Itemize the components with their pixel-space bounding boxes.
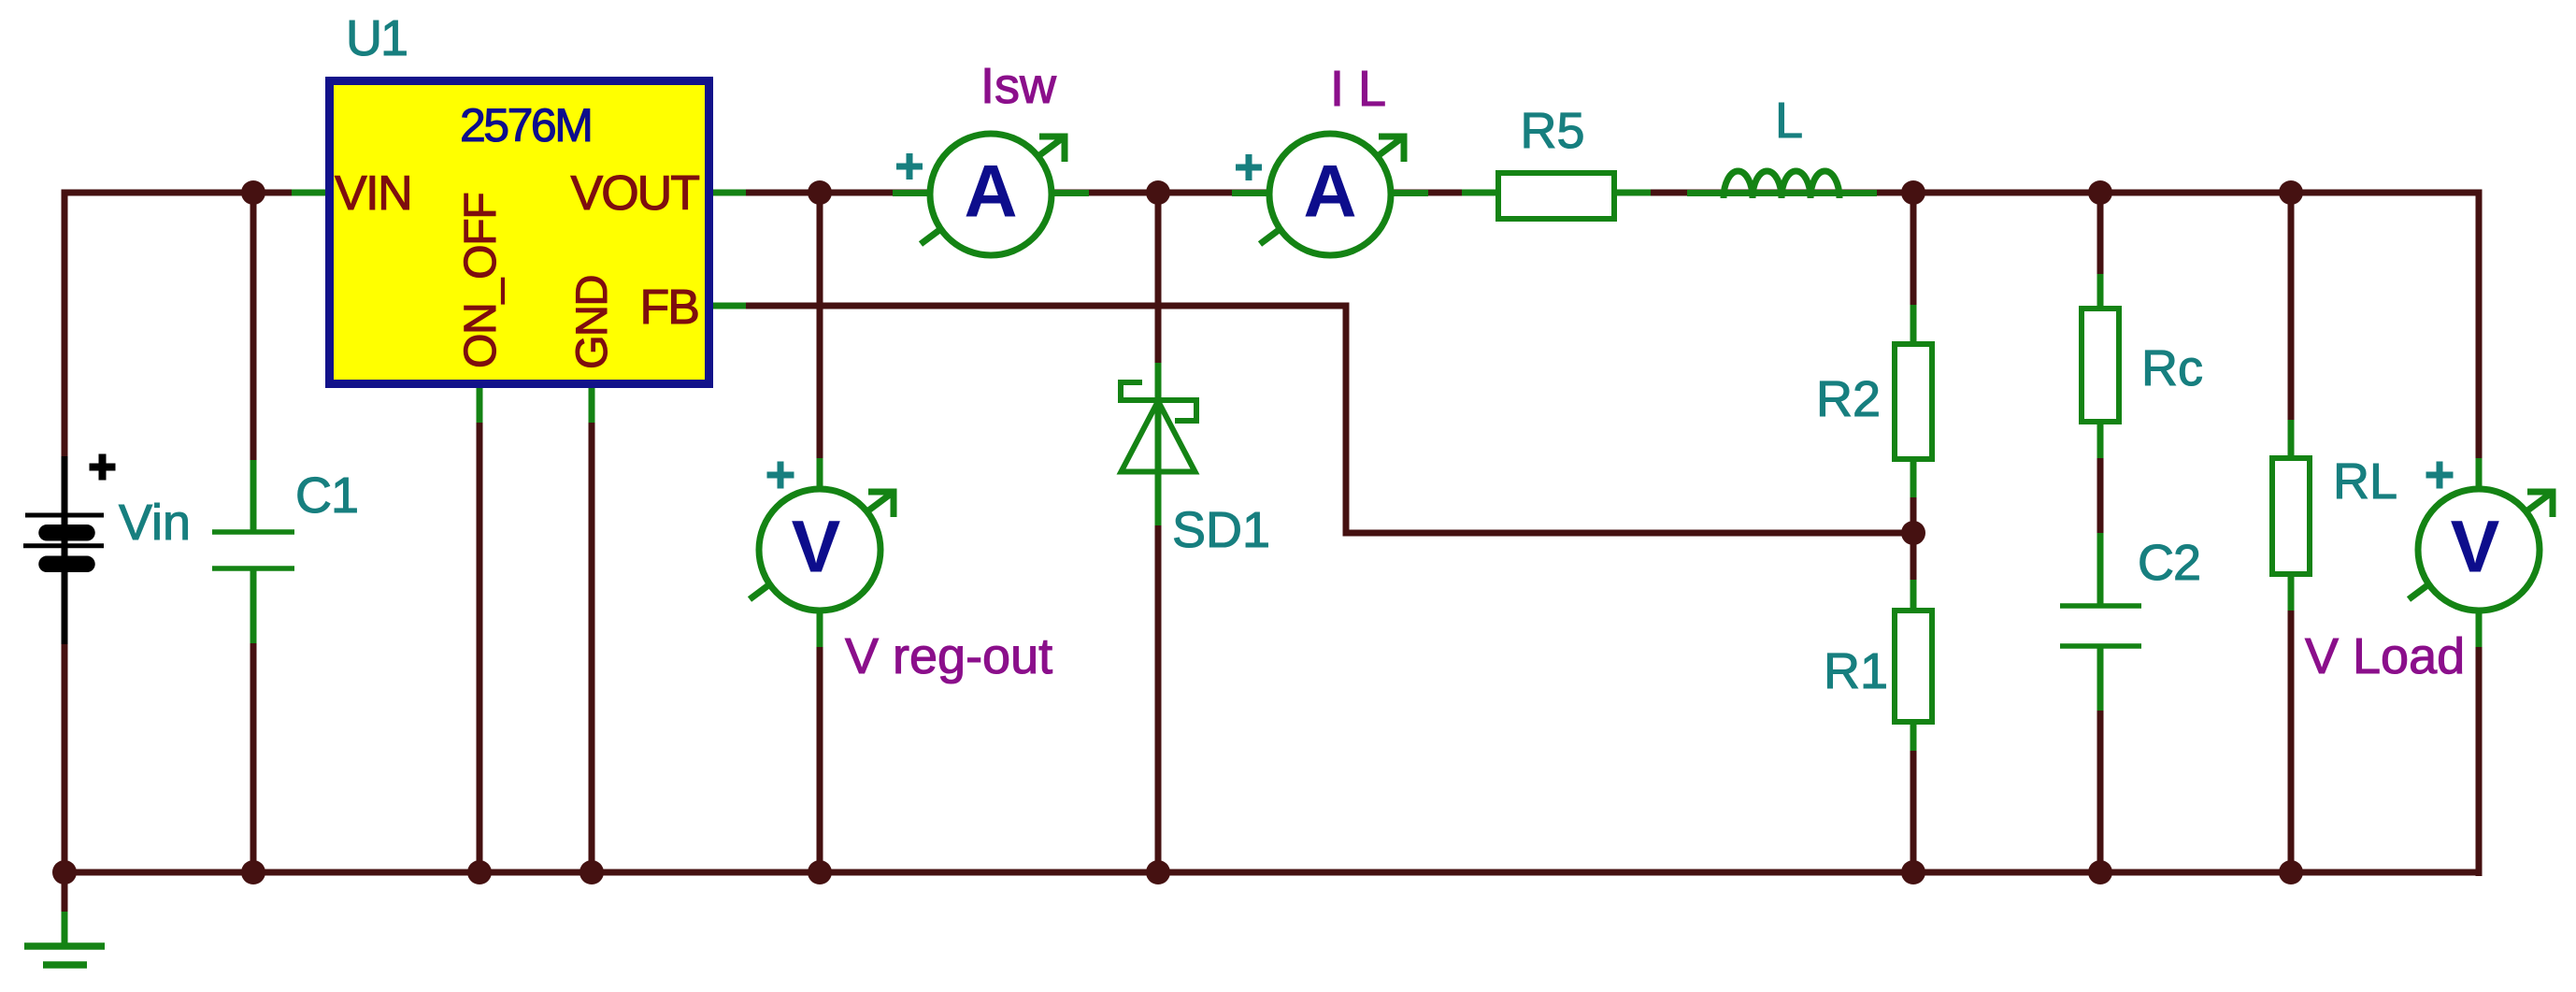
svg-text:R5: R5	[1520, 103, 1584, 159]
voltmeter V reg-out	[750, 458, 894, 647]
node ground junction (SD1)	[1146, 860, 1170, 884]
diode SD1 schottky	[1118, 363, 1199, 525]
node ground junction (GND pin)	[580, 860, 604, 884]
svg-text:VOUT: VOUT	[571, 166, 700, 221]
node ground junction (R1)	[1901, 860, 1925, 884]
capacitor C1	[212, 460, 294, 643]
svg-text:V: V	[792, 505, 841, 588]
svg-text:2576M: 2576M	[460, 99, 591, 151]
IC U1 2576M regulator body	[292, 81, 746, 424]
wire V Load meter column	[2476, 193, 2483, 876]
wire outer loop: top rail VIN/VOUT net, right side, ground bus bottom, battery column left	[64, 193, 2479, 872]
ammeter Isw	[893, 134, 1089, 255]
resistor R2	[1895, 305, 1932, 497]
node output junction (R2 top)	[1901, 180, 1925, 205]
voltmeter V Load	[2409, 458, 2553, 647]
plus sign V Load	[2426, 462, 2454, 489]
node ground junction (RL)	[2279, 860, 2303, 884]
svg-text:Vin: Vin	[119, 495, 191, 551]
wire V reg-out meter column	[817, 193, 823, 876]
resistor Rc	[2082, 274, 2119, 458]
wire FB feedback: from FB pin right, down, to R2/R1 divider node	[743, 306, 1913, 533]
node switch junction (SD1 top)	[1146, 180, 1170, 205]
svg-text:V reg-out: V reg-out	[845, 628, 1052, 684]
svg-text:FB: FB	[640, 280, 698, 335]
wire C1 column	[250, 193, 257, 876]
svg-text:RL: RL	[2333, 453, 2397, 510]
wire ON_OFF pin to ground bus	[477, 421, 483, 876]
wire RL column	[2288, 193, 2295, 876]
wire SD1 column	[1155, 193, 1162, 876]
ammeter I L	[1232, 134, 1428, 255]
node ground junction (C1)	[241, 860, 265, 884]
svg-text:SD1: SD1	[1172, 502, 1270, 558]
node VOUT junction (V reg-out top)	[808, 180, 832, 205]
resistor R1	[1895, 580, 1932, 751]
svg-text:GND: GND	[566, 276, 616, 369]
resistor RL	[2272, 420, 2310, 611]
svg-text:V Load: V Load	[2305, 628, 2465, 684]
svg-text:A: A	[964, 150, 1017, 233]
inductor L	[1687, 171, 1877, 198]
svg-text:ON_OFF: ON_OFF	[456, 194, 506, 368]
node output junction (Rc top)	[2088, 180, 2112, 205]
node feedback divider junction	[1901, 521, 1925, 545]
node ground junction (battery)	[52, 860, 77, 884]
svg-text:R2: R2	[1816, 371, 1881, 427]
node ground junction (ON_OFF)	[467, 860, 492, 884]
svg-text:A: A	[1303, 150, 1356, 233]
node VIN input junction (C1 top)	[241, 180, 265, 205]
svg-text:U1: U1	[346, 10, 407, 66]
svg-text:C2: C2	[2138, 535, 2200, 591]
svg-text:VIN: VIN	[335, 166, 411, 221]
node ground junction (C2)	[2088, 860, 2112, 884]
svg-text:C1: C1	[295, 467, 358, 524]
svg-text:V: V	[2451, 505, 2500, 588]
node output junction (RL top)	[2279, 180, 2303, 205]
plus sign Isw	[896, 153, 923, 180]
plus sign I L	[1236, 154, 1262, 180]
resistor R5	[1462, 173, 1651, 219]
node ground junction (V reg-out)	[808, 860, 832, 884]
svg-text:Rc: Rc	[2141, 340, 2203, 396]
svg-text:R1: R1	[1824, 643, 1888, 699]
svg-text:Isw: Isw	[980, 58, 1057, 114]
svg-text:L: L	[1775, 93, 1803, 149]
wire GND pin to ground bus	[589, 421, 595, 876]
wire R2/R1 divider column	[1911, 193, 1917, 876]
capacitor C2	[2060, 533, 2141, 711]
svg-text:I L: I L	[1330, 61, 1386, 117]
plus sign V reg-out	[767, 462, 794, 489]
wire Rc/C2 column	[2097, 193, 2104, 876]
battery Vin	[23, 454, 116, 645]
ground	[24, 869, 105, 965]
